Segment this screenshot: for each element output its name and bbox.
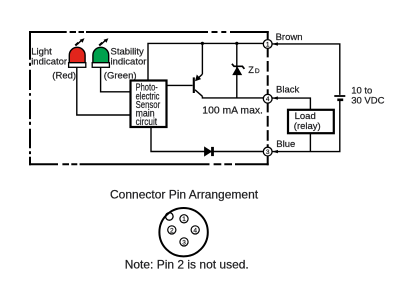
connector pin 4 — [191, 226, 199, 234]
wire: blue rail from photo box bottom through diode to terminal 3 — [151, 127, 263, 152]
svg-text:Note: Pin 2 is not used.: Note: Pin 2 is not used. — [125, 258, 249, 272]
LED D1 red dome — [69, 47, 85, 62]
svg-text:D: D — [255, 68, 260, 75]
LED D1 light arrow — [75, 38, 84, 45]
arrow into terminal 3 — [272, 150, 278, 153]
wire: top rail from photo box to terminal 1 — [148, 43, 263, 80]
connector pin 1 — [180, 215, 188, 223]
svg-text:circuit: circuit — [136, 117, 158, 128]
wire: load bottom lead — [309, 133, 311, 151]
zener diode ZD — [232, 64, 245, 75]
wire: black rail from transistor collector to terminal 4 — [202, 96, 263, 98]
LED D2 light arrow — [99, 38, 108, 45]
svg-text:(Red): (Red) — [52, 70, 76, 81]
connector keying notch — [166, 213, 174, 221]
connector pin 2 — [168, 226, 176, 234]
diode D3 on blue rail — [205, 147, 213, 156]
svg-text:2: 2 — [170, 227, 174, 234]
svg-text:100 mA max.: 100 mA max. — [202, 105, 263, 116]
wire: brown lead to battery — [272, 44, 340, 95]
wire: green LED lead — [101, 68, 131, 92]
svg-text:indicator: indicator — [31, 56, 67, 67]
wire: red LED lead — [77, 68, 131, 116]
LED D1 base band — [69, 63, 86, 68]
battery BT1 — [334, 96, 345, 100]
svg-text:1: 1 — [182, 216, 186, 223]
sensor enclosure bottom border — [29, 163, 269, 165]
LED D2 green dome — [93, 47, 109, 62]
svg-text:30 VDC: 30 VDC — [351, 95, 384, 106]
svg-text:indicator: indicator — [111, 56, 147, 67]
sensor enclosure top border — [29, 31, 269, 33]
junction dot A — [201, 42, 204, 45]
arrow into terminal 1 — [272, 42, 278, 45]
connector body circle — [159, 208, 207, 256]
svg-text:(relay): (relay) — [294, 121, 321, 132]
wire: black lead to load — [272, 98, 310, 109]
svg-text:Brown: Brown — [276, 32, 303, 43]
svg-text:Z: Z — [248, 65, 254, 75]
svg-text:4: 4 — [193, 227, 197, 234]
terminal 1 circle — [263, 40, 272, 49]
wire: blue lead to battery bottom — [272, 101, 340, 152]
svg-text:3: 3 — [266, 149, 270, 156]
wire: transistor emitter riser — [201, 43, 203, 74]
junction dot B — [235, 42, 238, 45]
sensor enclosure right border through terminals — [267, 31, 269, 165]
transistor Q1 (PNP) — [167, 74, 203, 96]
photo-electric sensor main circuit box U1 — [131, 81, 167, 128]
svg-text:1: 1 — [266, 41, 270, 48]
svg-text:Blue: Blue — [276, 139, 295, 150]
svg-text:3: 3 — [182, 239, 186, 246]
svg-text:Black: Black — [276, 85, 299, 96]
load (relay) box — [288, 110, 334, 133]
wire: zener branch vertical — [236, 43, 238, 98]
svg-text:Connector Pin Arrangement: Connector Pin Arrangement — [110, 188, 259, 202]
arrow into terminal 4 — [272, 96, 278, 99]
sensor enclosure left border — [29, 31, 31, 165]
connector pin 3 — [180, 238, 188, 246]
svg-text:4: 4 — [266, 96, 270, 103]
LED D2 base band — [92, 63, 109, 68]
terminal 4 circle — [263, 94, 272, 103]
terminal 3 circle — [263, 147, 272, 156]
